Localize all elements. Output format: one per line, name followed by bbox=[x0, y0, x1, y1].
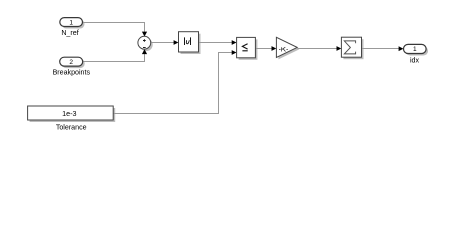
svg-text:Breakpoints: Breakpoints bbox=[53, 68, 91, 76]
svg-text:Tolerance: Tolerance bbox=[56, 124, 87, 132]
svg-text:2: 2 bbox=[69, 59, 73, 66]
svg-text:idx: idx bbox=[410, 56, 420, 64]
svg-text:1: 1 bbox=[413, 46, 417, 53]
svg-text:N_ref: N_ref bbox=[61, 29, 78, 37]
svg-text:1e-3: 1e-3 bbox=[62, 109, 76, 118]
svg-text:1: 1 bbox=[69, 19, 73, 26]
